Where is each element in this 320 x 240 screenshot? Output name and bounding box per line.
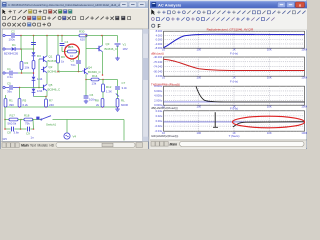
svg-text:100K: 100K: [301, 105, 307, 109]
svg-text:V1: V1: [123, 43, 127, 47]
svg-text:AC Analysis: AC Analysis: [158, 3, 182, 8]
svg-text:C1: C1: [7, 67, 11, 71]
svg-text:10K: 10K: [267, 76, 272, 80]
svg-text:0.000: 0.000: [156, 38, 163, 42]
svg-text:75k: 75k: [25, 122, 30, 126]
svg-text:0.00u: 0.00u: [156, 119, 163, 123]
svg-text:-4.000: -4.000: [155, 42, 163, 46]
svg-text:R12: R12: [106, 85, 112, 89]
svg-text:Switch1: Switch1: [46, 122, 57, 126]
svg-text:-70.040: -70.040: [153, 60, 163, 64]
svg-text:600R: 600R: [121, 103, 128, 107]
svg-text:BC846_C: BC846_C: [48, 87, 61, 91]
svg-text:100K: 100K: [301, 131, 307, 135]
svg-text:Text: Text: [30, 144, 36, 148]
svg-text:1N4: 1N4: [37, 89, 43, 93]
svg-text:4.000u: 4.000u: [154, 94, 163, 98]
svg-text:BC846_C: BC846_C: [105, 47, 118, 51]
svg-text:R25: R25: [68, 45, 74, 49]
svg-text:BZX84C05: BZX84C05: [4, 52, 19, 56]
svg-text:C7: C7: [122, 81, 126, 85]
svg-text:620: 620: [80, 38, 85, 42]
svg-text:415: 415: [2, 137, 7, 141]
svg-text:dB(HARM(v(Rload))): dB(HARM(v(Rload))): [151, 106, 178, 110]
svg-text:100: 100: [197, 105, 202, 109]
svg-text:100K: 100K: [301, 48, 307, 52]
svg-text:C6: C6: [90, 93, 94, 97]
svg-text:D3: D3: [37, 54, 41, 58]
svg-text:D1: D1: [12, 43, 16, 47]
svg-text:-74.040: -74.040: [153, 65, 163, 69]
svg-text:HD: HD: [50, 144, 55, 148]
svg-text:IHD(HARM(v(Rload))): IHD(HARM(v(Rload))): [151, 134, 178, 138]
svg-text:39u: 39u: [7, 90, 12, 94]
svg-text:V4: V4: [73, 135, 77, 139]
svg-text:F (Hz): F (Hz): [230, 51, 238, 55]
svg-text:10K: 10K: [267, 131, 272, 135]
svg-text:0.02u: 0.02u: [156, 114, 163, 118]
svg-text:Radiodetectorul_GTS1046_AV.CIR: Radiodetectorul_GTS1046_AV.CIR: [207, 27, 255, 31]
svg-text:100: 100: [197, 76, 202, 80]
svg-text:C3: C3: [71, 59, 75, 63]
svg-text:-00.040: -00.040: [153, 69, 163, 73]
svg-text:10K: 10K: [267, 48, 272, 52]
svg-text:390: 390: [9, 103, 14, 107]
svg-text:C:\MC8\DATA\Petru\switching di: C:\MC8\DATA\Petru\switching distortion\H…: [8, 3, 129, 7]
svg-text:18V: 18V: [123, 47, 128, 51]
svg-text:8.000: 8.000: [156, 29, 163, 33]
svg-text:C4: C4: [65, 40, 69, 44]
svg-text:F (Hz): F (Hz): [230, 79, 238, 83]
svg-text:560.5k: 560.5k: [8, 122, 17, 126]
svg-text:dB(v(out)): dB(v(out)): [151, 52, 164, 56]
svg-text:2.000u: 2.000u: [154, 98, 163, 102]
svg-text:Q5: Q5: [49, 83, 53, 87]
svg-text:13k: 13k: [92, 81, 97, 85]
svg-text:-40.000: -40.000: [153, 55, 163, 59]
svg-text:Q3: Q3: [106, 42, 110, 46]
svg-text:10: 10: [70, 54, 74, 58]
svg-text:1.3K: 1.3K: [106, 89, 112, 93]
svg-text:100: 100: [197, 131, 202, 135]
svg-text:F: F: [158, 24, 161, 30]
svg-text:Models: Models: [38, 144, 49, 148]
svg-text:F (Hz): F (Hz): [230, 107, 238, 111]
svg-text:100K: 100K: [301, 76, 307, 80]
svg-text:Q4: Q4: [88, 66, 92, 70]
svg-text:C5: C5: [7, 82, 11, 86]
svg-text:6.000u: 6.000u: [154, 89, 163, 93]
svg-text:3.3n: 3.3n: [122, 86, 128, 90]
svg-text:10: 10: [162, 76, 165, 80]
svg-text:R14: R14: [92, 74, 98, 78]
svg-text:240: 240: [49, 103, 54, 107]
svg-text:T (Secs): T (Secs): [229, 134, 240, 138]
svg-text:C9: C9: [26, 132, 30, 136]
svg-text:C2: C2: [11, 30, 15, 34]
svg-text:6.2k: 6.2k: [23, 103, 29, 107]
svg-text:100u: 100u: [9, 38, 16, 42]
svg-text:100: 100: [197, 48, 202, 52]
svg-text:1N4: 1N4: [37, 77, 43, 81]
svg-text:C8: C8: [7, 131, 11, 135]
svg-text:3.3u: 3.3u: [7, 75, 13, 79]
svg-text:10k: 10k: [25, 66, 30, 70]
svg-text:4.000: 4.000: [156, 33, 163, 37]
svg-text:-0.02u: -0.02u: [155, 124, 163, 128]
svg-text:R18: R18: [24, 113, 30, 117]
svg-text:R30: R30: [79, 30, 85, 34]
svg-text:3.6n: 3.6n: [14, 131, 20, 135]
svg-text:73n: 73n: [71, 63, 76, 67]
svg-text:10K: 10K: [267, 105, 272, 109]
svg-text:Main: Main: [170, 143, 178, 147]
svg-text:1n: 1n: [31, 136, 35, 140]
svg-text:THD(HARM(v(Rload))): THD(HARM(v(Rload))): [151, 82, 180, 86]
svg-text:R2: R2: [25, 61, 29, 65]
svg-text:T: T: [13, 9, 16, 14]
svg-text:R17: R17: [10, 113, 16, 117]
svg-text:R9: R9: [61, 55, 65, 59]
